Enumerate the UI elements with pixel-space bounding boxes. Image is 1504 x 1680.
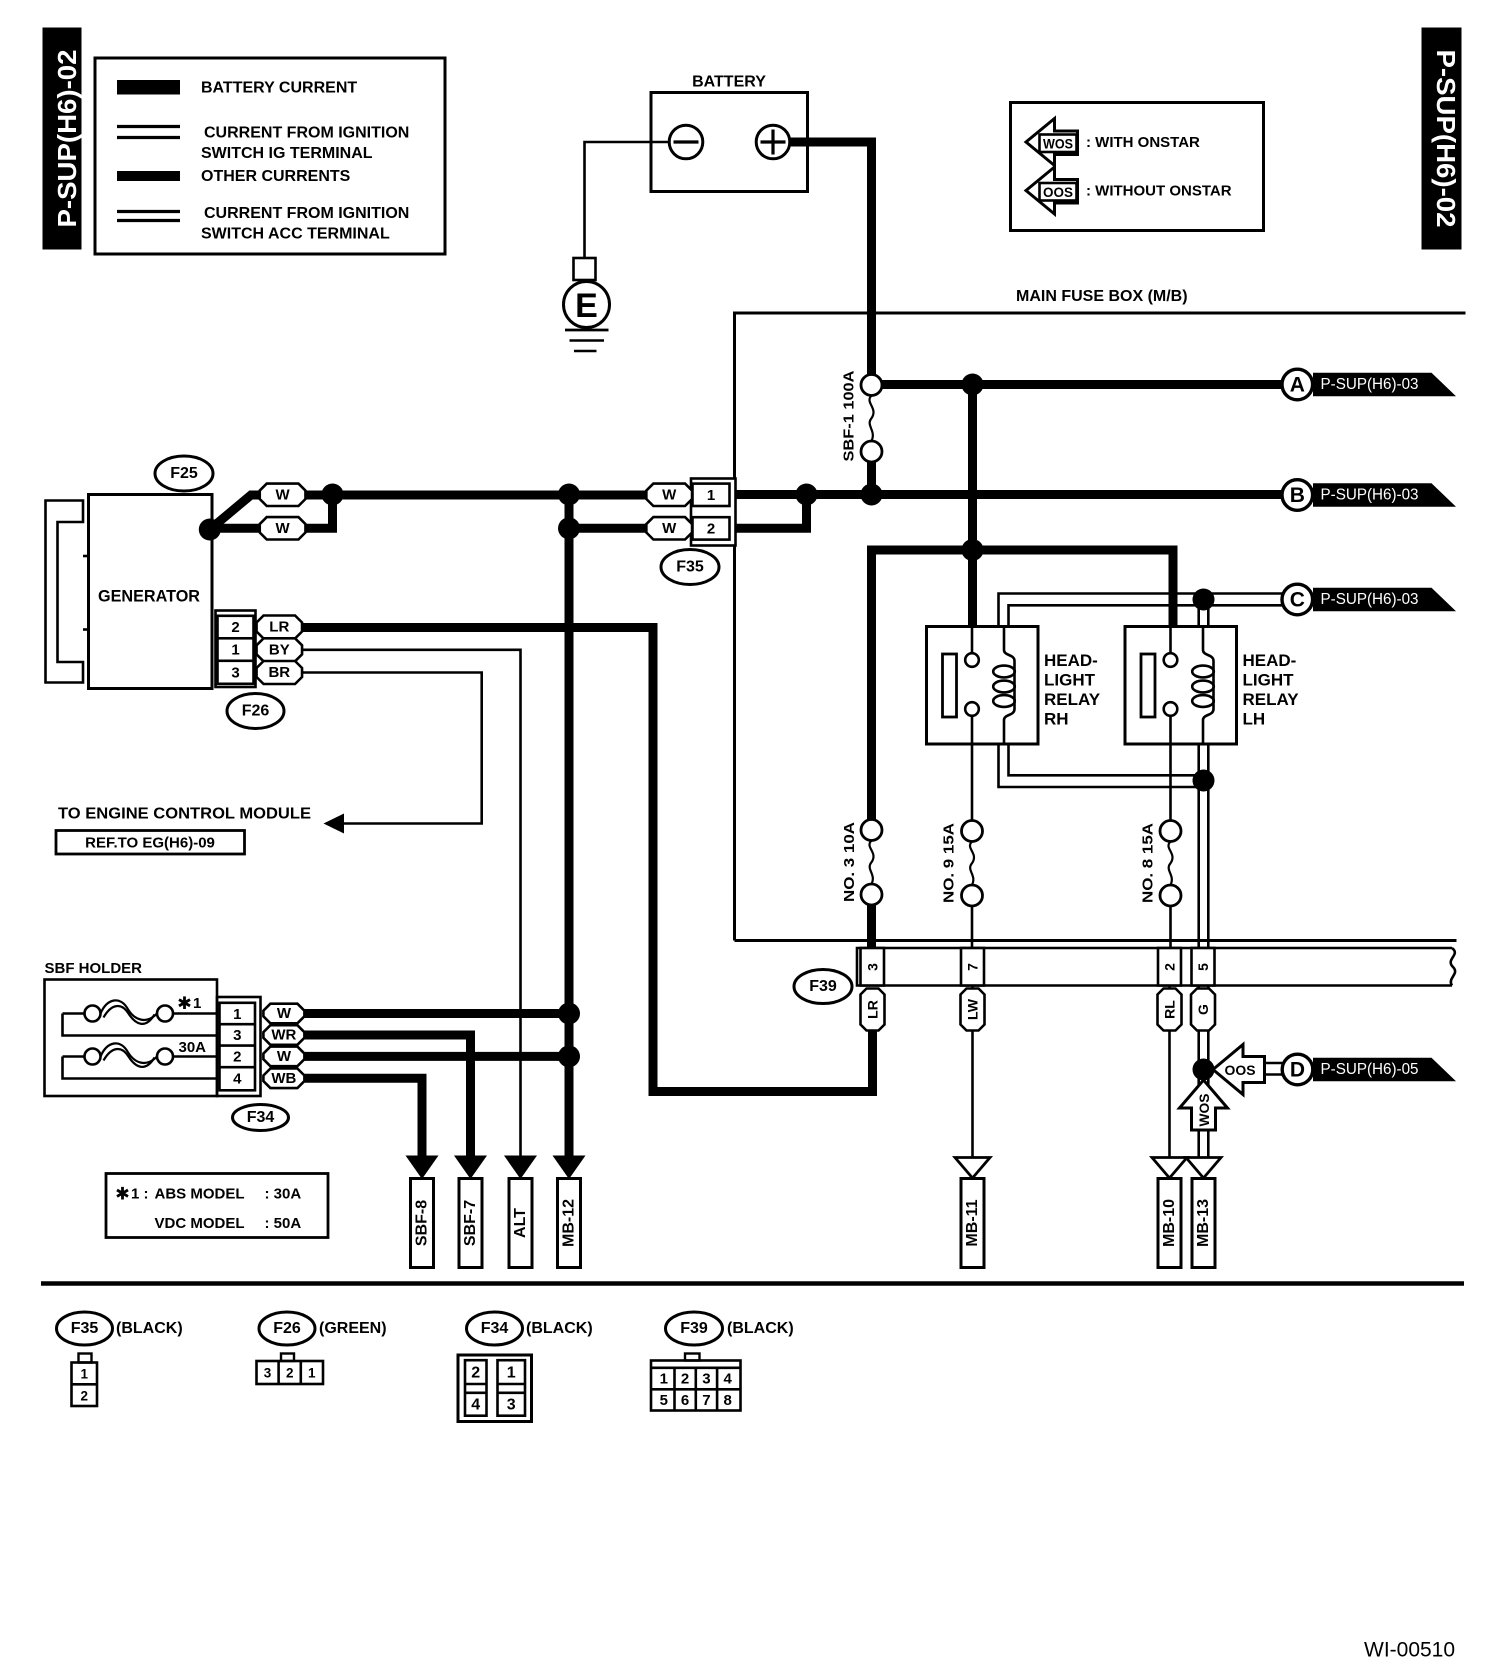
svg-text:CURRENT FROM IGNITION: CURRENT FROM IGNITION <box>204 205 409 222</box>
svg-text:F35: F35 <box>676 559 704 576</box>
node A <box>1282 369 1313 400</box>
svg-text:1: 1 <box>193 995 201 1012</box>
svg-text:RELAY: RELAY <box>1044 690 1101 709</box>
svg-text:F34: F34 <box>247 1109 275 1126</box>
connector F34 ellipse <box>233 1105 289 1131</box>
wire BR to ECM <box>300 673 482 824</box>
relay LH contacts <box>1164 627 1178 821</box>
junction B1 <box>796 484 818 506</box>
svg-text:2: 2 <box>471 1365 480 1382</box>
terminal MB-13 <box>1192 1179 1215 1268</box>
svg-text:3: 3 <box>264 1366 272 1381</box>
terminal arrow SBF-8 <box>406 1156 439 1180</box>
svg-text:HEAD-: HEAD- <box>1243 651 1297 670</box>
pin 7 <box>961 948 984 986</box>
svg-text:3: 3 <box>507 1397 516 1414</box>
svg-text:MB-12: MB-12 <box>561 1199 578 1247</box>
svg-text:SWITCH IG TERMINAL: SWITCH IG TERMINAL <box>201 145 373 162</box>
net label pill W f35-1 <box>646 484 692 506</box>
svg-text:(BLACK): (BLACK) <box>727 1320 794 1337</box>
terminal arrow MB-10 <box>1152 1158 1187 1179</box>
svg-text:P-SUP(H6)-03: P-SUP(H6)-03 <box>1321 591 1419 608</box>
junction bus <box>962 539 984 561</box>
relay LH box <box>1125 627 1237 745</box>
wire B line <box>736 490 1282 499</box>
wire OOS to D <box>1265 1063 1283 1075</box>
legend battery current bar <box>117 80 357 97</box>
pin 5 <box>1192 948 1215 986</box>
svg-text:: WITH ONSTAR: : WITH ONSTAR <box>1086 134 1200 151</box>
relay RH box <box>927 627 1039 745</box>
svg-text:W: W <box>277 1005 292 1022</box>
legend ignition ACC double line <box>117 205 409 243</box>
junction W1 <box>322 484 344 506</box>
connector F26 pinout <box>257 1354 324 1385</box>
svg-text:30A: 30A <box>179 1039 207 1056</box>
svg-text:P-SUP(H6)-03: P-SUP(H6)-03 <box>1321 487 1419 504</box>
wire SBF W2 <box>300 1052 569 1061</box>
arrow to ECM <box>58 806 344 834</box>
svg-text:OTHER CURRENTS: OTHER CURRENTS <box>201 168 351 185</box>
wire SBF W1 <box>300 1009 569 1018</box>
net label pill W sbf1 <box>263 1004 304 1024</box>
connector F34 pinout <box>458 1355 532 1422</box>
relay RH coil <box>993 627 1015 745</box>
svg-text:4: 4 <box>724 1371 733 1388</box>
svg-text:VDC MODEL: VDC MODEL <box>155 1215 245 1232</box>
pin 3 <box>861 948 885 986</box>
fuse NO.8 15A <box>1140 821 1182 907</box>
wire A feed down <box>968 385 977 551</box>
connector F26 pins <box>216 611 256 688</box>
svg-text:NO. 8 15A: NO. 8 15A <box>1140 823 1157 903</box>
svg-text:1: 1 <box>231 642 239 659</box>
svg-text:: WITHOUT ONSTAR: : WITHOUT ONSTAR <box>1086 183 1232 200</box>
svg-text:ALT: ALT <box>512 1208 529 1238</box>
svg-text:LW: LW <box>965 998 981 1020</box>
svg-text:NO. 9 15A: NO. 9 15A <box>941 823 958 903</box>
relay RH contacts <box>965 627 979 821</box>
svg-text:WI-00510: WI-00510 <box>1364 1639 1455 1662</box>
svg-text:MAIN FUSE BOX (M/B): MAIN FUSE BOX (M/B) <box>1016 288 1188 305</box>
net label pill LW <box>961 989 985 1031</box>
connector F35 ellipse <box>661 550 719 585</box>
net label pill RL <box>1158 989 1182 1031</box>
arrow OOS <box>1213 1045 1265 1095</box>
connector F25 ellipse <box>155 456 213 491</box>
page corner tab P-SUP(H6)-02 left <box>43 28 83 250</box>
svg-text:D: D <box>1290 1059 1305 1082</box>
junction G <box>1193 770 1215 792</box>
svg-text:G: G <box>1195 1004 1211 1015</box>
svg-text:LR: LR <box>865 1000 881 1019</box>
svg-text:(BLACK): (BLACK) <box>526 1320 593 1337</box>
banner A P-SUP(H6)-03 <box>1313 373 1456 397</box>
connector F26 legend <box>259 1312 387 1345</box>
wire bus to NO.3 fuse <box>867 550 876 821</box>
svg-text:CURRENT FROM IGNITION: CURRENT FROM IGNITION <box>204 125 409 142</box>
relay LH label <box>1243 651 1300 729</box>
onstar legend box <box>1011 103 1264 231</box>
wire SBF WR to SBF-7 <box>300 1035 471 1158</box>
wire C line right <box>1204 594 1283 606</box>
generator box <box>89 495 213 689</box>
junction generator <box>199 519 221 541</box>
wire headlight bus <box>872 546 1174 628</box>
battery negative terminal <box>669 125 703 159</box>
svg-text:OOS: OOS <box>1043 184 1073 200</box>
svg-text:TO ENGINE CONTROL MODULE: TO ENGINE CONTROL MODULE <box>58 806 311 823</box>
svg-text:2: 2 <box>231 619 239 636</box>
net label pill W f35-2 <box>646 517 692 539</box>
SBF holder label <box>45 960 143 977</box>
svg-text:BY: BY <box>269 641 290 658</box>
net label pill WB <box>263 1069 304 1089</box>
pin 2 <box>1158 948 1181 986</box>
battery positive terminal <box>756 125 790 159</box>
wire NO.8 to pin 2 <box>1169 906 1172 948</box>
svg-text:P-SUP(H6)-02: P-SUP(H6)-02 <box>52 50 82 228</box>
svg-text:MB-13: MB-13 <box>1195 1199 1212 1247</box>
node B <box>1282 480 1313 511</box>
svg-text:REF.TO EG(H6)-09: REF.TO EG(H6)-09 <box>85 835 215 852</box>
svg-text:SBF-1 100A: SBF-1 100A <box>841 370 858 461</box>
terminal SBF-7 <box>459 1179 482 1268</box>
svg-text:1: 1 <box>707 487 715 504</box>
svg-text:LR: LR <box>269 619 289 636</box>
wire NO.9 to pin 7 <box>971 906 974 948</box>
svg-text:W: W <box>276 486 291 503</box>
wire G to pin 5 <box>1199 781 1209 949</box>
legend ignition IG double line <box>117 125 409 163</box>
svg-text:W: W <box>276 520 291 537</box>
svg-text:MB-10: MB-10 <box>1161 1199 1178 1247</box>
svg-text:P-SUP(H6)-02: P-SUP(H6)-02 <box>1431 50 1461 228</box>
svg-text:MB-11: MB-11 <box>964 1199 981 1246</box>
svg-text:1: 1 <box>233 1006 241 1023</box>
SBF fuse 2 rating <box>179 1039 207 1056</box>
connector F39 ellipse <box>794 970 852 1004</box>
svg-text:HEAD-: HEAD- <box>1044 651 1098 670</box>
svg-text:LIGHT: LIGHT <box>1044 671 1096 690</box>
terminal arrow MB-11 <box>955 1158 990 1179</box>
wire battery positive <box>790 138 877 376</box>
connector F35 legend <box>57 1312 183 1345</box>
wire W pill2 to F35 <box>569 524 647 533</box>
SBF holder fuse 1 <box>63 1000 218 1035</box>
relay RH label <box>1044 651 1101 729</box>
wire F35 pin2 riser <box>736 495 807 529</box>
net label pill LR <box>861 989 885 1031</box>
net label pill BR <box>257 661 303 684</box>
net label pill WR <box>263 1025 304 1045</box>
net label pill W sbf2 <box>263 1047 304 1067</box>
svg-text:6: 6 <box>681 1392 689 1409</box>
svg-text:C: C <box>1290 589 1305 612</box>
net label pill LR gen <box>257 616 303 639</box>
svg-text:BATTERY CURRENT: BATTERY CURRENT <box>201 80 357 97</box>
relay LH coil <box>1192 627 1214 745</box>
main fuse box border <box>735 313 1466 941</box>
wire generator W upper <box>210 495 647 530</box>
terminal SBF-8 <box>411 1179 434 1268</box>
ground symbol <box>565 330 609 351</box>
wire SBF-1 to B line <box>867 462 876 495</box>
svg-text:7: 7 <box>965 963 981 971</box>
svg-text:A: A <box>1290 374 1305 397</box>
SBF fuse 1 rating <box>179 995 201 1012</box>
svg-text:F26: F26 <box>273 1320 301 1337</box>
svg-text:SWITCH ACC TERMINAL: SWITCH ACC TERMINAL <box>201 226 390 243</box>
terminal MB-11 <box>961 1179 984 1268</box>
fuse SBF-1 100A <box>841 370 883 462</box>
connector F35 pinout <box>72 1354 98 1407</box>
svg-text:4: 4 <box>233 1071 242 1088</box>
svg-text:OOS: OOS <box>1225 1062 1256 1078</box>
svg-text:2: 2 <box>233 1049 241 1066</box>
svg-text:P-SUP(H6)-05: P-SUP(H6)-05 <box>1321 1061 1419 1078</box>
svg-text:WB: WB <box>271 1070 296 1087</box>
svg-text:RELAY: RELAY <box>1243 690 1300 709</box>
SBF holder fuse 2 <box>63 1043 218 1078</box>
wire relay LH coil down <box>1199 744 1209 781</box>
net label pill BY <box>257 638 303 661</box>
svg-text:NO. 3 10A: NO. 3 10A <box>841 822 858 902</box>
svg-text:7: 7 <box>702 1392 710 1409</box>
banner D P-SUP(H6)-05 <box>1313 1058 1456 1082</box>
svg-text:LH: LH <box>1243 710 1266 729</box>
wire C line upper <box>999 594 1204 627</box>
fuse NO.9 15A <box>941 821 983 907</box>
svg-text:F34: F34 <box>481 1320 509 1337</box>
wire BY <box>300 650 521 1158</box>
wire battery negative to ground <box>585 142 670 258</box>
legend other currents bar <box>117 168 351 185</box>
svg-text:WOS: WOS <box>1196 1094 1212 1127</box>
terminal MB-10 <box>1158 1179 1181 1268</box>
onstar legend OOS arrow <box>1026 167 1232 214</box>
svg-text:B: B <box>1290 484 1305 507</box>
net label pill G <box>1191 989 1215 1031</box>
svg-text:RL: RL <box>1162 1000 1178 1019</box>
terminal MB-12 <box>558 1179 581 1268</box>
connector F35 pins <box>691 479 736 546</box>
svg-text:W: W <box>277 1048 292 1065</box>
connector F34 legend <box>467 1312 593 1345</box>
svg-text:ABS MODEL: ABS MODEL <box>155 1186 245 1203</box>
svg-text:SBF-8: SBF-8 <box>414 1200 431 1246</box>
svg-text:1 :: 1 : <box>131 1186 149 1203</box>
svg-text:1: 1 <box>660 1371 668 1388</box>
arrow WOS <box>1180 1080 1228 1130</box>
banner B P-SUP(H6)-03 <box>1313 483 1456 507</box>
wire SBF WB to SBF-8 <box>300 1078 422 1157</box>
junction A <box>962 374 984 396</box>
terminal arrow SBF-7 <box>454 1156 487 1180</box>
junction W2 <box>558 484 580 506</box>
svg-text:2: 2 <box>80 1389 88 1404</box>
generator pulley bracket <box>46 501 89 683</box>
wire NO.3 to pin 3 <box>867 905 876 948</box>
fuse NO.3 10A <box>841 820 882 906</box>
relay LH slot <box>1141 654 1155 717</box>
svg-text:GENERATOR: GENERATOR <box>98 587 200 606</box>
svg-text:4: 4 <box>471 1397 480 1414</box>
ground connector box <box>574 258 596 280</box>
svg-text:P-SUP(H6)-03: P-SUP(H6)-03 <box>1321 376 1419 393</box>
net label pill W gen2 <box>260 517 306 539</box>
terminal arrow ALT <box>504 1156 537 1180</box>
svg-text:SBF HOLDER: SBF HOLDER <box>45 960 143 977</box>
terminal arrow MB-13 <box>1186 1158 1221 1179</box>
separator line <box>41 1281 1464 1286</box>
svg-text:F39: F39 <box>680 1320 708 1337</box>
wire LR net <box>257 628 873 1092</box>
connector F39 legend <box>666 1312 794 1345</box>
svg-text:F35: F35 <box>71 1320 99 1337</box>
wire bus to relay RH <box>968 550 977 627</box>
node C <box>1282 584 1313 615</box>
svg-text:W: W <box>662 486 677 503</box>
svg-text:3: 3 <box>865 963 881 971</box>
ECM reference box <box>56 831 245 855</box>
svg-text:: 50A: : 50A <box>265 1215 302 1232</box>
svg-text:1: 1 <box>80 1367 88 1382</box>
connector strip F39 <box>857 948 1455 986</box>
svg-text:: 30A: : 30A <box>265 1186 302 1203</box>
svg-text:(GREEN): (GREEN) <box>319 1320 387 1337</box>
svg-text:1: 1 <box>507 1365 516 1382</box>
svg-text:2: 2 <box>286 1366 294 1381</box>
wire LW to MB-11 <box>971 986 974 1158</box>
svg-text:F25: F25 <box>170 465 198 482</box>
SBF holder box <box>45 980 218 1097</box>
svg-text:5: 5 <box>1195 963 1211 971</box>
junction B2 <box>861 484 883 506</box>
terminal arrow MB-12 <box>553 1156 586 1180</box>
junction SBF W2 <box>558 1045 580 1067</box>
drawing number <box>1364 1639 1455 1662</box>
relay RH slot <box>943 654 957 717</box>
svg-text:1: 1 <box>308 1366 316 1381</box>
wire relay RH coil to G <box>999 744 1204 787</box>
wire generator W lower <box>210 495 333 529</box>
wire G to MB-13 and D <box>1199 986 1209 1158</box>
svg-text:2: 2 <box>707 520 715 537</box>
wire MB-12 feed <box>565 495 574 1158</box>
connector F34 pins <box>217 997 261 1096</box>
svg-text:BATTERY: BATTERY <box>692 74 766 91</box>
terminal ALT <box>509 1179 532 1268</box>
battery <box>651 74 808 192</box>
note box ABS/VDC model <box>106 1174 328 1238</box>
wire C to relay LH coil <box>1199 600 1209 627</box>
svg-text:SBF-7: SBF-7 <box>462 1200 479 1246</box>
main fuse box label <box>1016 288 1188 305</box>
svg-text:3: 3 <box>231 665 239 682</box>
junction SBF W1 <box>558 1003 580 1025</box>
svg-text:F26: F26 <box>242 703 270 720</box>
svg-text:F39: F39 <box>809 978 837 995</box>
svg-text:3: 3 <box>702 1371 710 1388</box>
connector F26 ellipse <box>227 694 284 729</box>
svg-text:BR: BR <box>268 664 290 681</box>
net label pill W gen1 <box>260 484 306 506</box>
legend box <box>95 58 445 254</box>
svg-text:WOS: WOS <box>1043 136 1073 152</box>
svg-text:(BLACK): (BLACK) <box>116 1320 183 1337</box>
ground E circle <box>564 282 610 328</box>
svg-text:2: 2 <box>1162 963 1178 971</box>
page corner tab P-SUP(H6)-02 right <box>1422 28 1462 250</box>
svg-text:2: 2 <box>681 1371 689 1388</box>
junction D <box>1193 1059 1215 1081</box>
svg-text:8: 8 <box>724 1392 732 1409</box>
svg-text:W: W <box>662 520 677 537</box>
banner C P-SUP(H6)-03 <box>1313 588 1456 612</box>
svg-text:WR: WR <box>271 1027 296 1044</box>
node D <box>1282 1054 1313 1085</box>
svg-text:LIGHT: LIGHT <box>1243 671 1295 690</box>
svg-text:E: E <box>575 287 598 325</box>
junction W3 <box>558 517 580 539</box>
svg-text:3: 3 <box>233 1027 241 1044</box>
onstar legend WOS arrow <box>1026 119 1200 166</box>
connector F39 pinout <box>651 1354 741 1411</box>
svg-text:RH: RH <box>1044 710 1069 729</box>
wire A line <box>882 380 1282 389</box>
svg-text:5: 5 <box>660 1392 668 1409</box>
wire RL to MB-10 <box>1168 986 1171 1158</box>
junction C <box>1193 589 1215 611</box>
